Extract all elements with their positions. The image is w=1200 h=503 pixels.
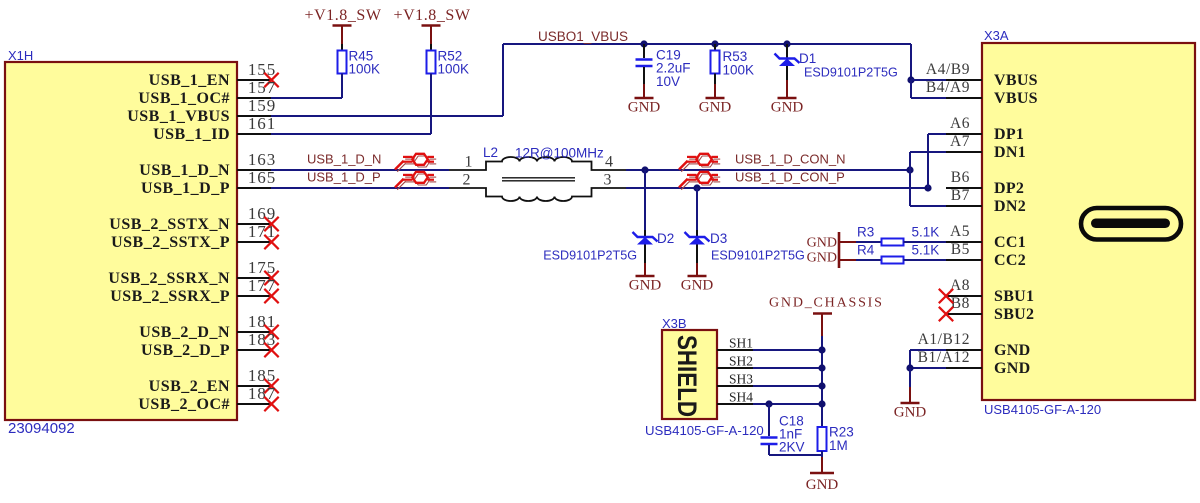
svg-text:A1/B12: A1/B12 bbox=[918, 331, 970, 348]
svg-text:12R@100MHz: 12R@100MHz bbox=[515, 146, 604, 161]
svg-text:ESD9101P2T5G: ESD9101P2T5G bbox=[711, 249, 805, 263]
svg-text:B7: B7 bbox=[951, 187, 970, 204]
svg-text:100K: 100K bbox=[438, 62, 470, 77]
svg-text:GND: GND bbox=[807, 251, 837, 266]
svg-text:VBUS: VBUS bbox=[994, 72, 1038, 89]
svg-text:USB_2_EN: USB_2_EN bbox=[149, 378, 230, 395]
svg-text:DP2: DP2 bbox=[994, 180, 1024, 197]
svg-text:SH2: SH2 bbox=[729, 354, 753, 369]
svg-text:23094092: 23094092 bbox=[8, 420, 75, 437]
svg-text:5.1K: 5.1K bbox=[912, 243, 940, 258]
svg-text:A4/B9: A4/B9 bbox=[926, 61, 970, 78]
svg-text:GND: GND bbox=[894, 405, 927, 421]
svg-text:155: 155 bbox=[248, 60, 276, 79]
svg-text:GND: GND bbox=[771, 100, 804, 116]
svg-text:USB_1_D_N: USB_1_D_N bbox=[139, 162, 230, 179]
svg-text:3: 3 bbox=[604, 172, 612, 189]
svg-text:4: 4 bbox=[605, 154, 613, 171]
svg-text:USB_1_D_N: USB_1_D_N bbox=[307, 152, 381, 167]
svg-text:X1H: X1H bbox=[8, 48, 33, 63]
svg-text:B4/A9: B4/A9 bbox=[926, 79, 970, 96]
svg-text:GND: GND bbox=[699, 100, 732, 116]
svg-text:SHIELD: SHIELD bbox=[672, 335, 702, 417]
svg-text:183: 183 bbox=[248, 330, 276, 349]
svg-text:ESD9101P2T5G: ESD9101P2T5G bbox=[543, 249, 637, 263]
svg-text:D3: D3 bbox=[710, 231, 727, 246]
svg-text:USB_1_D_CON_N: USB_1_D_CON_N bbox=[735, 152, 846, 167]
svg-text:USB_1_D_CON_P: USB_1_D_CON_P bbox=[735, 170, 845, 185]
svg-text:USB_1_EN: USB_1_EN bbox=[149, 72, 230, 89]
svg-text:GND: GND bbox=[681, 278, 714, 294]
svg-text:GND: GND bbox=[806, 477, 839, 493]
svg-text:B6: B6 bbox=[951, 169, 970, 186]
svg-text:USB_1_OC#: USB_1_OC# bbox=[138, 90, 230, 107]
svg-text:USB_2_SSRX_P: USB_2_SSRX_P bbox=[110, 288, 230, 305]
svg-text:171: 171 bbox=[248, 222, 276, 241]
svg-text:100K: 100K bbox=[723, 63, 755, 78]
svg-text:1: 1 bbox=[465, 154, 473, 171]
svg-text:B5: B5 bbox=[951, 241, 970, 258]
svg-text:5.1K: 5.1K bbox=[912, 225, 940, 240]
svg-text:B1/A12: B1/A12 bbox=[918, 349, 970, 366]
svg-text:A5: A5 bbox=[950, 223, 970, 240]
svg-text:USB_2_D_P: USB_2_D_P bbox=[141, 342, 230, 359]
svg-text:GND: GND bbox=[807, 236, 837, 251]
svg-text:+V1.8_SW: +V1.8_SW bbox=[394, 7, 471, 24]
svg-text:USB_1_D_P: USB_1_D_P bbox=[141, 180, 230, 197]
svg-text:177: 177 bbox=[248, 276, 276, 295]
svg-text:DN2: DN2 bbox=[994, 198, 1026, 215]
svg-text:2KV: 2KV bbox=[779, 440, 805, 455]
svg-text:USB_2_OC#: USB_2_OC# bbox=[138, 396, 230, 413]
svg-text:2: 2 bbox=[463, 172, 471, 189]
svg-text:SBU1: SBU1 bbox=[994, 288, 1034, 305]
svg-text:GND_CHASSIS: GND_CHASSIS bbox=[769, 296, 884, 311]
svg-text:SH1: SH1 bbox=[729, 336, 753, 351]
svg-text:USB_2_SSTX_N: USB_2_SSTX_N bbox=[109, 216, 230, 233]
svg-text:181: 181 bbox=[248, 312, 276, 331]
svg-text:GND: GND bbox=[994, 360, 1030, 377]
svg-text:USB_2_SSTX_P: USB_2_SSTX_P bbox=[111, 234, 230, 251]
svg-text:B8: B8 bbox=[951, 295, 970, 312]
svg-text:CC1: CC1 bbox=[994, 234, 1026, 251]
svg-text:L2: L2 bbox=[483, 145, 498, 160]
svg-text:A6: A6 bbox=[950, 115, 970, 132]
svg-text:A8: A8 bbox=[950, 277, 970, 294]
svg-text:SH3: SH3 bbox=[729, 372, 753, 387]
svg-text:163: 163 bbox=[248, 150, 276, 169]
svg-text:169: 169 bbox=[248, 204, 276, 223]
svg-text:GND: GND bbox=[629, 278, 662, 294]
svg-text:USBO1_VBUS: USBO1_VBUS bbox=[538, 29, 628, 44]
svg-text:R3: R3 bbox=[857, 225, 874, 240]
svg-text:GND: GND bbox=[994, 342, 1030, 359]
svg-text:USB_2_SSRX_N: USB_2_SSRX_N bbox=[108, 270, 230, 287]
svg-text:USB4105-GF-A-120: USB4105-GF-A-120 bbox=[984, 402, 1101, 417]
svg-text:SH4: SH4 bbox=[729, 390, 753, 405]
svg-text:D2: D2 bbox=[657, 231, 674, 246]
svg-text:USB_1_ID: USB_1_ID bbox=[153, 126, 230, 143]
svg-text:X3A: X3A bbox=[984, 28, 1009, 43]
svg-text:185: 185 bbox=[248, 366, 276, 385]
svg-text:SBU2: SBU2 bbox=[994, 306, 1034, 323]
svg-text:VBUS: VBUS bbox=[994, 90, 1038, 107]
svg-text:X3B: X3B bbox=[662, 316, 687, 331]
svg-text:+V1.8_SW: +V1.8_SW bbox=[305, 7, 382, 24]
svg-text:ESD9101P2T5G: ESD9101P2T5G bbox=[804, 66, 898, 80]
svg-text:GND: GND bbox=[628, 100, 661, 116]
svg-text:1M: 1M bbox=[829, 438, 848, 453]
svg-text:USB_1_VBUS: USB_1_VBUS bbox=[127, 108, 230, 125]
svg-text:100K: 100K bbox=[349, 62, 381, 77]
svg-text:187: 187 bbox=[248, 384, 276, 403]
svg-text:10V: 10V bbox=[656, 74, 680, 89]
svg-text:D1: D1 bbox=[799, 51, 816, 66]
svg-text:CC2: CC2 bbox=[994, 252, 1026, 269]
svg-text:USB_2_D_N: USB_2_D_N bbox=[139, 324, 230, 341]
svg-text:175: 175 bbox=[248, 258, 276, 277]
svg-text:DN1: DN1 bbox=[994, 144, 1026, 161]
svg-text:157: 157 bbox=[248, 78, 276, 97]
svg-text:A7: A7 bbox=[950, 133, 970, 150]
svg-text:USB4105-GF-A-120: USB4105-GF-A-120 bbox=[645, 423, 764, 438]
svg-text:R4: R4 bbox=[857, 243, 875, 258]
svg-text:USB_1_D_P: USB_1_D_P bbox=[307, 170, 381, 185]
svg-text:DP1: DP1 bbox=[994, 126, 1024, 143]
